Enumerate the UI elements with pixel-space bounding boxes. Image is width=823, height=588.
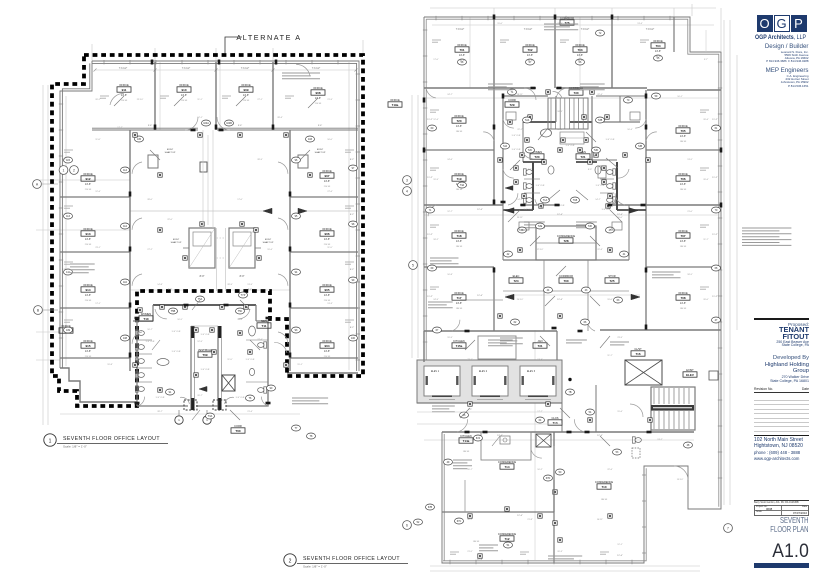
svg-text:14'-7": 14'-7" [595, 199, 601, 201]
svg-text:OFFICE: OFFICE [678, 291, 688, 295]
svg-text:22'-1": 22'-1" [517, 129, 523, 131]
svg-text:720: 720 [456, 119, 461, 123]
svg-text:T2E: T2E [538, 225, 543, 228]
sheet title [763, 516, 809, 534]
svg-text:13'-9": 13'-9" [537, 359, 543, 361]
svg-text:5'-0" CLR: 5'-0" CLR [172, 331, 181, 333]
svg-text:OFFICE: OFFICE [454, 229, 464, 233]
svg-text:24'-9": 24'-9" [433, 299, 439, 301]
svg-text:19'-8": 19'-8" [107, 364, 113, 366]
svg-text:22'-6": 22'-6" [607, 469, 613, 471]
svg-text:210 SF: 210 SF [324, 244, 331, 246]
svg-text:210 SF: 210 SF [85, 300, 92, 302]
svg-text:22'-10": 22'-10" [137, 99, 144, 101]
plan 2 elevator bank [417, 360, 562, 403]
svg-text:24'-7": 24'-7" [447, 94, 453, 96]
svg-text:210 SF: 210 SF [243, 100, 250, 102]
svg-text:T5A: T5A [198, 298, 203, 301]
svg-text:27'-6": 27'-6" [327, 191, 333, 193]
plan 1 janitor X box [222, 375, 235, 391]
svg-text:14'-6": 14'-6" [456, 302, 462, 305]
plan 1 men toilets [258, 342, 267, 348]
plan 1 door tags [202, 120, 211, 126]
svg-text:100: 100 [351, 337, 356, 340]
small boxes plan 2 core [506, 112, 516, 120]
svg-text:5'-0" CLR: 5'-0" CLR [146, 341, 155, 343]
svg-text:105: 105 [137, 138, 142, 141]
svg-text:21'-8": 21'-8" [527, 519, 533, 521]
svg-text:16'-7": 16'-7" [147, 329, 153, 331]
svg-text:21'-0": 21'-0" [687, 211, 693, 213]
plan 1 corridor wall [92, 129, 198, 131]
svg-text:5'-0" CLR: 5'-0" CLR [512, 149, 521, 151]
svg-text:EXIST: EXIST [173, 239, 180, 241]
svg-text:210 SF: 210 SF [315, 103, 322, 105]
svg-text:906: 906 [324, 232, 329, 236]
svg-text:13'-1": 13'-1" [557, 129, 563, 131]
svg-text:OFFICE: OFFICE [322, 169, 332, 173]
svg-text:Scale: 1/8" = 1'-0": Scale: 1/8" = 1'-0" [63, 445, 87, 449]
svg-text:9'-7": 9'-7" [704, 59, 708, 61]
svg-text:180 SF: 180 SF [456, 246, 463, 248]
svg-text:5'-0" CLR: 5'-0" CLR [156, 397, 165, 399]
svg-text:SEVENTH FLOOR OFFICE LAYOUT: SEVENTH FLOOR OFFICE LAYOUT [303, 556, 400, 562]
svg-text:905: 905 [324, 288, 329, 292]
svg-text:8'-2": 8'-2" [62, 214, 67, 216]
elevator 2 [472, 366, 508, 396]
revision table [754, 387, 809, 391]
svg-text:12'-1": 12'-1" [617, 544, 623, 546]
svg-text:13'-4": 13'-4" [637, 23, 643, 25]
svg-text:911: 911 [122, 88, 127, 92]
svg-text:14'-6": 14'-6" [324, 350, 330, 353]
svg-text:113: 113 [66, 215, 70, 218]
svg-text:12'-4": 12'-4" [477, 295, 483, 297]
svg-text:9'-6": 9'-6" [148, 125, 153, 127]
svg-text:EXIST: EXIST [686, 368, 694, 372]
window sill mini-notes plan 2 [432, 39, 441, 41]
svg-text:11'-2": 11'-2" [427, 119, 433, 121]
svg-text:180 SF: 180 SF [459, 60, 466, 62]
svg-text:20'-0": 20'-0" [703, 299, 709, 301]
svg-text:ELEV 2: ELEV 2 [479, 370, 488, 373]
svg-text:17'-10": 17'-10" [537, 249, 544, 251]
svg-text:11'-1": 11'-1" [197, 99, 202, 101]
svg-text:OFFICE: OFFICE [83, 227, 93, 231]
svg-text:27'-6": 27'-6" [257, 339, 263, 341]
svg-text:8'-2": 8'-2" [350, 159, 355, 161]
svg-text:210 SF: 210 SF [181, 100, 188, 102]
svg-text:7'-8 1/2": 7'-8 1/2" [456, 29, 465, 31]
svg-text:17'-0": 17'-0" [433, 59, 439, 61]
svg-text:731: 731 [537, 344, 542, 348]
svg-text:MEN: MEN [261, 319, 267, 323]
svg-text:8'-2": 8'-2" [350, 214, 355, 216]
svg-text:JAN: JAN [538, 339, 543, 343]
svg-text:8'-0": 8'-0" [240, 275, 245, 278]
plan 2 left band walls [424, 149, 494, 151]
svg-text:5: 5 [412, 263, 414, 267]
plan 2 core stair treads [548, 98, 588, 129]
svg-text:5'-0" CLR: 5'-0" CLR [606, 139, 615, 141]
svg-text:14'-6": 14'-6" [243, 94, 249, 97]
svg-text:210 SF: 210 SF [85, 356, 92, 358]
plan 1 women toilets [135, 330, 144, 336]
svg-text:8'-2": 8'-2" [350, 269, 355, 271]
svg-text:OFFICE: OFFICE [525, 43, 535, 47]
svg-text:14'-6": 14'-6" [680, 135, 686, 138]
svg-text:703: 703 [577, 48, 582, 52]
svg-text:8'-2": 8'-2" [350, 327, 355, 329]
svg-text:27'-2": 27'-2" [147, 249, 153, 251]
plan 2 exit arrows [505, 208, 514, 214]
svg-text:8'-2": 8'-2" [62, 159, 67, 161]
svg-text:5'-0" CLR: 5'-0" CLR [201, 369, 210, 371]
svg-text:T11: T11 [261, 324, 266, 328]
svg-text:Scale: 1/8" = 1'-0": Scale: 1/8" = 1'-0" [303, 565, 327, 569]
svg-text:VESTIBULE: VESTIBULE [198, 348, 213, 352]
svg-text:180 SF: 180 SF [463, 451, 470, 453]
plan 2 elevator lobby guides [417, 411, 562, 413]
plan 2 faint dimension lines [723, 20, 725, 505]
svg-text:15'-0": 15'-0" [497, 23, 503, 25]
svg-text:718: 718 [456, 234, 461, 238]
svg-text:17'-1": 17'-1" [197, 117, 203, 119]
svg-text:11'-2": 11'-2" [427, 234, 433, 236]
plan 2 top band corridor wall [424, 87, 536, 89]
svg-text:19'-6": 19'-6" [267, 249, 273, 251]
svg-text:28'-0": 28'-0" [147, 199, 153, 201]
svg-text:OFFICE: OFFICE [678, 172, 688, 176]
svg-text:2: 2 [73, 168, 75, 172]
svg-text:180 SF: 180 SF [473, 541, 480, 543]
plan 1 top band partitions [154, 62, 156, 130]
svg-text:67D: 67D [546, 477, 551, 480]
svg-text:T00: T00 [235, 429, 241, 433]
plan 1 band partitions [60, 196, 130, 198]
svg-text:907: 907 [324, 174, 329, 178]
svg-text:14'-6": 14'-6" [456, 240, 462, 243]
svg-text:OFFICE: OFFICE [241, 83, 251, 87]
svg-text:19'-9": 19'-9" [447, 337, 453, 339]
svg-text:7'-8 1/2": 7'-8 1/2" [581, 29, 590, 31]
svg-text:19'-0": 19'-0" [607, 299, 613, 301]
svg-text:103: 103 [308, 138, 313, 141]
svg-text:CONFERENCE: CONFERENCE [498, 532, 516, 536]
drawing label 2 [284, 554, 408, 569]
svg-text:T09: T09 [202, 353, 208, 357]
svg-text:706: 706 [680, 177, 685, 181]
plan 2 core fixtures [541, 129, 552, 137]
svg-text:28'-9": 28'-9" [227, 284, 233, 286]
svg-text:OFFICE: OFFICE [454, 291, 464, 295]
plan 1 core center chases [190, 326, 192, 410]
svg-text:14'-6": 14'-6" [85, 183, 91, 186]
svg-text:TYP: TYP [241, 294, 246, 297]
plan 1 upper shafts [148, 155, 158, 168]
svg-text:KITCHEN: KITCHEN [453, 339, 465, 343]
svg-text:T1A: T1A [543, 199, 548, 202]
svg-text:915: 915 [85, 344, 90, 348]
svg-text:910: 910 [181, 88, 186, 92]
svg-text:11'-2": 11'-2" [712, 119, 718, 121]
svg-text:22'-4": 22'-4" [597, 249, 603, 251]
svg-text:19'-9": 19'-9" [433, 179, 439, 181]
svg-text:11'-9": 11'-9" [327, 247, 332, 249]
svg-text:KITCHEN: KITCHEN [460, 434, 472, 438]
svg-text:13'-2": 13'-2" [657, 439, 663, 441]
svg-text:909: 909 [243, 88, 248, 92]
svg-text:210 SF: 210 SF [324, 300, 331, 302]
svg-text:710: 710 [601, 485, 606, 489]
plan 1 corridor faint edges [202, 130, 204, 228]
svg-text:11'-2": 11'-2" [712, 177, 718, 179]
svg-text:14'-6": 14'-6" [85, 350, 91, 353]
svg-text:14'-6": 14'-6" [181, 94, 187, 97]
svg-text:914: 914 [85, 288, 90, 292]
svg-text:8'-9": 8'-9" [588, 169, 592, 171]
svg-text:705: 705 [680, 129, 685, 133]
plan 2 core walls [502, 96, 504, 205]
svg-text:EXIST: EXIST [317, 149, 324, 151]
svg-text:EXIST: EXIST [265, 239, 272, 241]
svg-text:104B: 104B [226, 122, 232, 125]
plan 1 faint dimension lines [42, 85, 44, 425]
svg-text:7'-6 1/2": 7'-6 1/2" [241, 68, 250, 70]
plan 1 central shaft rooms [189, 228, 215, 268]
svg-text:16'-11": 16'-11" [597, 519, 604, 521]
svg-text:180 SF: 180 SF [680, 189, 687, 191]
svg-text:14'-6": 14'-6" [85, 294, 91, 297]
svg-text:13'-5": 13'-5" [687, 159, 693, 161]
svg-text:OFFICE: OFFICE [83, 339, 93, 343]
svg-text:OFFICE: OFFICE [575, 43, 585, 47]
svg-text:11'-2": 11'-2" [427, 296, 433, 298]
extra sq tags plan 2 [498, 158, 502, 162]
firm name [755, 34, 798, 41]
plan 2 core tags [541, 197, 550, 203]
svg-text:T1B: T1B [573, 199, 578, 202]
svg-text:18'-5": 18'-5" [687, 274, 693, 276]
door jamb poche plan 1 [191, 129, 196, 132]
svg-text:904: 904 [324, 344, 329, 348]
plan 1 office stamps [117, 83, 131, 97]
svg-text:712: 712 [504, 537, 509, 541]
svg-text:7: 7 [727, 526, 729, 530]
svg-text:23'-1": 23'-1" [95, 247, 101, 249]
plan 1 core exit arrow [199, 386, 207, 391]
plan 1 core tags [196, 296, 205, 302]
svg-text:14'-6": 14'-6" [324, 180, 330, 183]
svg-text:EXIST: EXIST [167, 149, 174, 151]
plan 2 door tags [458, 182, 467, 188]
svg-text:9'-6": 9'-6" [238, 125, 243, 127]
plan 2 extra core tags [523, 117, 532, 123]
svg-text:9'-6": 9'-6" [168, 289, 173, 291]
svg-text:5'-0" CLR: 5'-0" CLR [536, 185, 545, 187]
svg-text:9'-1": 9'-1" [528, 169, 532, 171]
svg-text:104A: 104A [203, 122, 209, 125]
svg-text:180 SF: 180 SF [456, 131, 463, 133]
svg-text:T2C: T2C [528, 149, 533, 152]
svg-text:180 SF: 180 SF [655, 56, 662, 58]
svg-text:9'-6": 9'-6" [248, 289, 253, 291]
svg-text:210 SF: 210 SF [85, 189, 92, 191]
svg-text:12'-6": 12'-6" [433, 119, 439, 121]
svg-text:17'-0": 17'-0" [237, 199, 243, 201]
plan 1 core walls [153, 304, 256, 306]
svg-text:11'-2": 11'-2" [712, 234, 718, 236]
svg-text:5'-0" CLR: 5'-0" CLR [172, 351, 181, 353]
plan 1 right band inner wall [289, 130, 291, 371]
svg-text:14'-6": 14'-6" [324, 238, 330, 241]
svg-text:23'-9": 23'-9" [617, 337, 623, 339]
svg-text:108: 108 [123, 337, 128, 340]
svg-text:180 SF: 180 SF [456, 189, 463, 191]
svg-text:11'-2": 11'-2" [427, 177, 433, 179]
plan 2: seventh floor office layout [388, 8, 737, 571]
svg-text:1: 1 [63, 168, 65, 172]
svg-text:CLOS: CLOS [551, 416, 558, 420]
svg-text:14'-8": 14'-8" [157, 284, 163, 286]
svg-text:14'-6": 14'-6" [315, 97, 321, 100]
plan 1 core sq tags [160, 305, 164, 309]
svg-text:730: 730 [573, 91, 578, 95]
svg-text:ELEV 3: ELEV 3 [527, 370, 536, 373]
svg-text:22'-4": 22'-4" [597, 94, 603, 96]
plan 1: seventh floor office layout alternate A [33, 40, 363, 439]
svg-text:22'-0": 22'-0" [167, 219, 173, 221]
plan 2 right band walls [646, 149, 721, 151]
svg-text:ALTERNATE A: ALTERNATE A [236, 33, 301, 42]
svg-text:180 SF: 180 SF [680, 246, 687, 248]
svg-text:27'-1": 27'-1" [257, 99, 263, 101]
svg-text:OFFICE: OFFICE [653, 39, 663, 43]
svg-text:21'-9": 21'-9" [327, 99, 333, 101]
svg-text:15'-6": 15'-6" [617, 411, 623, 413]
svg-text:725: 725 [609, 279, 614, 283]
plan 1 tenant dashed boundary [52, 55, 363, 406]
extra sq tags plan 1 [133, 133, 137, 137]
svg-text:15'-1": 15'-1" [297, 364, 303, 366]
svg-text:SHAFT UP: SHAFT UP [171, 241, 182, 244]
stamp left of plan2 [388, 98, 402, 107]
svg-text:23'-11": 23'-11" [517, 217, 524, 219]
plan 1 left band inner wall [129, 130, 131, 371]
svg-text:14'-6": 14'-6" [680, 302, 686, 305]
svg-text:714: 714 [504, 465, 509, 469]
svg-text:CL/ST: CL/ST [634, 347, 642, 351]
svg-text:ELEV 1: ELEV 1 [431, 370, 440, 373]
svg-text:708: 708 [680, 296, 685, 300]
svg-text:23'-9": 23'-9" [557, 23, 563, 25]
svg-text:SEVENTH FLOOR OFFICE LAYOUT: SEVENTH FLOOR OFFICE LAYOUT [63, 436, 160, 442]
svg-text:28'-4": 28'-4" [277, 117, 283, 119]
svg-text:12'-7": 12'-7" [447, 211, 453, 213]
svg-text:702: 702 [527, 48, 532, 52]
window sill mini-notes plan 1 [100, 95, 109, 97]
svg-text:SHAFT UP: SHAFT UP [263, 241, 274, 244]
svg-text:5'-0" CLR: 5'-0" CLR [246, 359, 255, 361]
svg-text:CONFERENCE: CONFERENCE [595, 480, 613, 484]
svg-text:CORRIDOR: CORRIDOR [559, 274, 573, 278]
svg-text:72B: 72B [638, 145, 643, 148]
svg-text:719a: 719a [392, 103, 399, 107]
svg-text:908: 908 [315, 91, 320, 95]
svg-text:704: 704 [655, 44, 660, 48]
plan 1 door arcs [185, 117, 198, 130]
svg-text:707: 707 [680, 234, 685, 238]
svg-text:7B: 7B [569, 391, 572, 394]
svg-text:73A: 73A [460, 184, 465, 187]
svg-text:OFFICE: OFFICE [322, 339, 332, 343]
svg-text:CORR: CORR [508, 98, 516, 102]
svg-text:5'-0" CLR: 5'-0" CLR [236, 397, 245, 399]
svg-text:T20: T20 [534, 155, 540, 159]
svg-text:20'-6": 20'-6" [703, 119, 709, 121]
svg-text:67A: 67A [476, 437, 481, 440]
svg-text:14'-6": 14'-6" [459, 54, 465, 57]
plan 2 faint grid stubs top right [691, 4, 693, 16]
svg-text:110: 110 [123, 281, 127, 284]
elevator machine room X [625, 360, 662, 385]
sheet number A1.0 [750, 541, 809, 563]
svg-text:14'-6": 14'-6" [121, 94, 127, 97]
svg-text:210 SF: 210 SF [324, 356, 331, 358]
plan 2 band inner vertical walls [493, 88, 495, 205]
elevator 1 [424, 366, 460, 396]
svg-text:17'-2": 17'-2" [117, 127, 123, 129]
svg-text:114: 114 [123, 169, 127, 172]
svg-text:8'-2": 8'-2" [62, 327, 67, 329]
svg-text:7'-6 1/2": 7'-6 1/2" [312, 68, 321, 70]
svg-text:14'-6": 14'-6" [680, 240, 686, 243]
svg-text:15'-10": 15'-10" [677, 479, 684, 481]
plan 2 core small arrow [505, 186, 513, 191]
svg-text:SHAFT UP: SHAFT UP [315, 151, 326, 154]
svg-text:21'-4": 21'-4" [247, 411, 253, 413]
exist elevator stamp [683, 368, 697, 377]
plan 2 grid bubbles [403, 176, 412, 185]
svg-text:OFFICE: OFFICE [454, 114, 464, 118]
svg-text:724: 724 [513, 279, 518, 283]
core shelves [560, 132, 584, 144]
svg-text:SHAFT UP: SHAFT UP [165, 151, 176, 154]
svg-text:14'-6": 14'-6" [456, 125, 462, 128]
svg-text:OFFICE: OFFICE [179, 83, 189, 87]
svg-text:719: 719 [456, 177, 461, 181]
svg-text:72A: 72A [503, 145, 508, 148]
svg-text:17'-1": 17'-1" [95, 303, 101, 305]
plan 2 exterior walls [424, 17, 721, 563]
svg-text:14'-6": 14'-6" [324, 294, 330, 297]
room left of stair fixtures [632, 437, 641, 443]
svg-text:28'-7": 28'-7" [157, 411, 163, 413]
plan 1 shaft corridor verticals [216, 228, 218, 291]
svg-text:20'-7": 20'-7" [197, 395, 203, 397]
svg-text:14'-1": 14'-1" [517, 199, 523, 201]
tenant fitout [754, 318, 809, 320]
svg-text:11'-7": 11'-7" [703, 239, 708, 241]
svg-text:5'-0" CLR: 5'-0" CLR [596, 185, 605, 187]
svg-text:16'-0": 16'-0" [327, 139, 333, 141]
svg-text:12'-4": 12'-4" [517, 515, 523, 517]
svg-text:13'-3": 13'-3" [327, 303, 333, 305]
svg-text:OFFICE: OFFICE [83, 283, 93, 287]
svg-text:9'-6": 9'-6" [318, 125, 323, 127]
svg-text:12'-4": 12'-4" [557, 214, 563, 216]
svg-text:180 SF: 180 SF [456, 308, 463, 310]
